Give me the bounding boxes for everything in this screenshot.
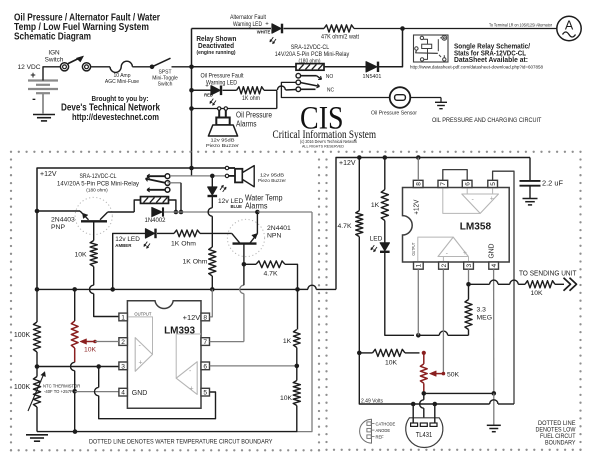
svg-text:OIL PRESSURE AND CHARGING CIRC: OIL PRESSURE AND CHARGING CIRCUIT xyxy=(432,117,542,124)
wire rail to Q1 emitter xyxy=(37,210,80,212)
svg-text:LM358: LM358 xyxy=(460,222,492,233)
Q2 collector down xyxy=(243,244,245,265)
wire pin1 down xyxy=(417,269,419,335)
TL431 pins xyxy=(412,404,414,423)
svg-text:To Terminal 1R on 10Si/12Si Al: To Terminal 1R on 10Si/12Si Alternator xyxy=(489,23,553,28)
wire 2.49V left leg xyxy=(359,353,409,404)
svg-text:14V/20A 5-Pin PCB Mini-Relay: 14V/20A 5-Pin PCB Mini-Relay xyxy=(275,51,350,58)
wire bus to low fuel rail xyxy=(298,288,309,290)
wire bus to white LED xyxy=(192,28,272,30)
wire fuse to toggle switch xyxy=(132,66,151,68)
svg-text:2.2 uF: 2.2 uF xyxy=(542,179,563,188)
potentiometer 50K (red) xyxy=(423,353,425,364)
relay K1 coil xyxy=(296,64,324,71)
svg-text:3: 3 xyxy=(466,263,473,267)
wire coil right to row xyxy=(169,200,176,212)
svg-text:NO: NO xyxy=(326,74,334,80)
wire ground rail xyxy=(37,431,297,433)
svg-text:REF: REF xyxy=(376,434,385,439)
junction TL431 cathode leg xyxy=(411,402,416,407)
junction armature / row xyxy=(179,210,184,215)
svg-text:100K: 100K xyxy=(14,332,31,339)
svg-text:(engine running): (engine running) xyxy=(197,50,236,56)
wire pot to gnd line xyxy=(424,392,494,394)
svg-text:4.7K: 4.7K xyxy=(338,223,352,230)
arrow to sending unit xyxy=(564,278,571,291)
junction rail / NO drop xyxy=(189,166,194,171)
svg-text:A: A xyxy=(565,19,574,33)
svg-text:-: - xyxy=(32,93,36,105)
wire 1K to NC contact xyxy=(264,89,277,91)
wire TL431 middle leg xyxy=(423,393,425,399)
svg-text:OUTPUT: OUTPUT xyxy=(134,311,151,316)
wire 1N5401 to 47K row xyxy=(379,29,403,67)
wire 10K to ground rail xyxy=(296,406,298,432)
svg-text:6: 6 xyxy=(465,182,472,186)
U2 pin 6 xyxy=(462,180,472,187)
svg-text:+: + xyxy=(30,70,35,80)
transistor Q1 2N4403 PNP xyxy=(75,197,112,234)
svg-text:+12V: +12V xyxy=(183,313,201,322)
U2 pin 1 xyxy=(414,262,424,269)
svg-text:+12V: +12V xyxy=(339,158,356,167)
wire armature down to row xyxy=(168,182,182,184)
piezo buzzer 1 (oil pressure) xyxy=(218,110,220,117)
svg-text:Alternator Fault: Alternator Fault xyxy=(230,14,266,21)
U2 op-amp B triangle xyxy=(462,194,499,213)
svg-text:ALL RIGHTS RESERVED: ALL RIGHTS RESERVED xyxy=(302,144,344,148)
wire +12V mid bus xyxy=(37,288,298,290)
junction pin6 / right divider xyxy=(295,364,300,369)
svg-text:7: 7 xyxy=(440,182,447,186)
junction pin1 row xyxy=(416,333,421,338)
svg-text:1K: 1K xyxy=(371,202,380,209)
svg-text:+12V: +12V xyxy=(40,169,57,178)
wire 4.7K down to 10K row xyxy=(358,237,360,353)
wire main +12V vertical bus xyxy=(191,29,193,169)
wire LED to 1K xyxy=(223,89,237,91)
ground oil sensor xyxy=(440,98,442,103)
junction bus left rail xyxy=(35,287,40,292)
ground water temp xyxy=(26,434,48,436)
svg-text:3: 3 xyxy=(121,363,125,370)
svg-text:10K: 10K xyxy=(280,395,293,402)
junction rail / 1K xyxy=(383,155,388,160)
Q1 base resistor wire xyxy=(93,223,95,241)
wire 4.7K to bus xyxy=(285,264,298,289)
wire pin4 down to ground xyxy=(493,269,495,393)
wire LED to 47K xyxy=(284,28,325,30)
svg-text:SRA-12VDC-CL: SRA-12VDC-CL xyxy=(291,44,330,51)
wire ground drop x312 xyxy=(297,212,312,432)
fuse 10A AGC xyxy=(110,61,132,72)
U1 pin 8 xyxy=(201,313,210,321)
svg-text:+: + xyxy=(190,386,194,393)
svg-text:+: + xyxy=(463,250,467,257)
junction ground rail / pot leg xyxy=(73,429,78,434)
wire battery to IGN switch xyxy=(43,67,60,81)
svg-text:Relay Shown: Relay Shown xyxy=(196,36,236,43)
wire rail drop to NO row xyxy=(191,168,193,176)
svg-text:Piezo Buzzer: Piezo Buzzer xyxy=(206,143,240,148)
wire 1K to bus xyxy=(211,276,213,289)
potentiometer 10K (red) xyxy=(74,289,76,321)
junction pot bottom xyxy=(422,391,427,396)
junction bus / buzzer row xyxy=(189,106,194,111)
wire sensor to ground xyxy=(410,97,441,99)
resistor 10K (right divider) xyxy=(296,366,298,381)
svg-text:GND: GND xyxy=(132,388,148,397)
svg-text:ANODE: ANODE xyxy=(376,428,391,433)
wire thermistor to ground rail xyxy=(36,407,38,432)
svg-text:10K: 10K xyxy=(74,252,87,259)
wire coil to 1N5401 xyxy=(324,66,366,68)
svg-text:10K: 10K xyxy=(530,290,543,297)
svg-text:1N5401: 1N5401 xyxy=(363,74,382,80)
svg-text:4: 4 xyxy=(121,390,125,397)
capacitor 2.2uF xyxy=(529,158,531,181)
relay K2 contact NO xyxy=(165,174,170,179)
TL431 body xyxy=(406,418,443,448)
svg-text:TL431: TL431 xyxy=(416,432,433,439)
junction bus / 1K vertical pin8 xyxy=(210,287,215,292)
wire coil left to row xyxy=(134,200,140,212)
junction divider / pin3 row xyxy=(35,364,40,369)
relay K1 contact NC xyxy=(296,87,301,92)
svg-text:Alarms: Alarms xyxy=(236,119,257,128)
wire pin1 row to 3.3MEG xyxy=(418,334,439,336)
svg-text:Alarms: Alarms xyxy=(245,202,268,211)
svg-text:1N4002: 1N4002 xyxy=(144,218,166,224)
U2 pin 2 xyxy=(439,262,449,269)
resistor 4.7K (low fuel) xyxy=(358,158,360,211)
TO-92 package legend xyxy=(360,419,372,443)
svg-text:12 VDC: 12 VDC xyxy=(17,64,40,71)
svg-text:OUTPUT: OUTPUT xyxy=(411,242,416,255)
junction bus / 4.7K branch xyxy=(295,287,300,292)
svg-text:(c) 2016 Deve's Technical Netw: (c) 2016 Deve's Technical Network xyxy=(300,139,358,144)
junction rail / 4.7K xyxy=(357,155,362,160)
wire +12V rail low fuel xyxy=(336,158,530,290)
ground battery xyxy=(33,114,55,116)
wire pot to ground rail xyxy=(74,391,76,431)
resistor 100K (upper divider) xyxy=(36,289,38,322)
svg-text:+12V: +12V xyxy=(412,199,421,214)
wire IGN to fuse xyxy=(91,66,110,68)
speaker water temp terminals xyxy=(225,166,228,169)
U2 pin 4 xyxy=(489,262,499,269)
wire pin7 pin6 loop xyxy=(443,170,467,181)
Q2 emitter arrow xyxy=(250,234,257,243)
svg-text:12v 95dB: 12v 95dB xyxy=(260,173,284,178)
alternator symbol A xyxy=(557,16,581,40)
op-amp U2 LM358 xyxy=(403,188,510,263)
pot 10K wiper xyxy=(86,341,95,343)
svg-text:8: 8 xyxy=(416,182,423,186)
junction pin3 row / x98.7 xyxy=(96,364,101,369)
LED amber xyxy=(146,229,155,238)
U1 comparator B triangle xyxy=(176,362,197,395)
svg-text:5: 5 xyxy=(203,390,207,397)
wire pin7 to riser xyxy=(210,341,244,343)
wire toggle to bus node xyxy=(172,66,192,68)
wire +12V rail water temp xyxy=(37,168,225,289)
resistor 3.3 MEG xyxy=(468,284,470,299)
wire pin7 riser xyxy=(243,294,245,342)
svg-text:1: 1 xyxy=(121,315,125,322)
wire pin3 down xyxy=(468,269,470,284)
wire Q2 to diode row xyxy=(256,212,258,234)
U1 pin 7 xyxy=(201,338,210,346)
svg-text:http://www.datasheet-pdf.com/d: http://www.datasheet-pdf.com/datasheet-d… xyxy=(410,64,544,69)
junction 4.7K / 10K row xyxy=(357,351,362,356)
svg-text:50K: 50K xyxy=(447,371,460,378)
U1 comparator A triangle xyxy=(135,338,152,372)
wire buzzer row xyxy=(192,108,277,110)
svg-text:PNP: PNP xyxy=(51,224,65,231)
wire pin5 feedback loop xyxy=(493,171,514,404)
piezo buzzer 2 (water temp) xyxy=(229,167,235,169)
junction 47K row / relay diode branch xyxy=(400,26,405,31)
wire 1K to Q2 base xyxy=(200,232,232,234)
wire 10K to LM393 pin1 xyxy=(93,267,95,286)
U1 pin 6 xyxy=(201,362,210,370)
wire bus to red LED xyxy=(192,89,212,91)
junction main bus / toggle xyxy=(189,65,194,70)
wire x98.7 riser to pin5 row xyxy=(98,367,100,388)
svg-text:(180 ohm): (180 ohm) xyxy=(86,187,108,193)
svg-text:Schematic Diagram: Schematic Diagram xyxy=(14,32,91,43)
svg-text:BLUE: BLUE xyxy=(231,204,243,209)
svg-text:IGN: IGN xyxy=(48,50,60,57)
svg-text:WHITE: WHITE xyxy=(257,30,271,35)
diode 1N5401 xyxy=(366,62,377,72)
svg-text:+: + xyxy=(139,359,143,366)
svg-text:14V/20A 5-Pin PCB Mini-Relay: 14V/20A 5-Pin PCB Mini-Relay xyxy=(57,180,140,187)
U1 pin 3 xyxy=(119,362,128,370)
svg-text:6: 6 xyxy=(203,363,207,370)
relay K1 armature xyxy=(296,80,301,85)
svg-text:BOUNDARY: BOUNDARY xyxy=(545,439,576,446)
svg-text:10K: 10K xyxy=(385,360,398,367)
wire row to ground drop x312 xyxy=(257,211,312,213)
junction bus / oil LED row xyxy=(189,88,194,93)
resistor 4.7K (water temp) xyxy=(244,263,256,265)
U1 pin 1 xyxy=(119,313,128,321)
svg-text:LM393: LM393 xyxy=(164,326,195,337)
resistor 1K Ohm (vertical) xyxy=(209,247,216,276)
svg-text:8: 8 xyxy=(203,315,207,322)
svg-text:47K ohm/2 watt: 47K ohm/2 watt xyxy=(321,35,359,41)
svg-text:1: 1 xyxy=(416,263,423,267)
op-amp U1 LM393 xyxy=(127,301,201,409)
resistor 47K ohm/2 watt xyxy=(324,25,354,32)
junction 10K / 50K pot xyxy=(422,351,426,355)
thermistor 100K NTC xyxy=(36,367,38,377)
svg-text:TO SENDING UNIT: TO SENDING UNIT xyxy=(519,270,577,277)
svg-text:2N4403: 2N4403 xyxy=(51,217,75,224)
svg-text:+: + xyxy=(265,22,269,28)
svg-text:DataSheet Available at:: DataSheet Available at: xyxy=(454,55,528,64)
svg-text:1K Ohm: 1K Ohm xyxy=(171,241,196,248)
junction rail / Q1 emitter xyxy=(35,209,40,214)
svg-text:Switch: Switch xyxy=(45,57,64,64)
dotted boundary water temperature circuit xyxy=(10,151,12,153)
svg-text:NPN: NPN xyxy=(267,232,281,239)
U2 pin 3 xyxy=(464,262,474,269)
wire LED to pin1 row xyxy=(385,252,414,335)
wire battery to ground xyxy=(42,93,44,113)
songle relay schematic box xyxy=(414,35,449,62)
resistor 10K (sending) xyxy=(525,281,555,288)
svg-text:http://devestechnet.com: http://devestechnet.com xyxy=(72,112,159,122)
U2 pin 8 xyxy=(413,180,423,187)
LED red (oil pressure fault) xyxy=(211,86,220,95)
wire diode row right xyxy=(164,211,258,213)
svg-text:LED: LED xyxy=(370,235,383,242)
junction NO row / blue LED xyxy=(210,174,215,179)
svg-text:+: + xyxy=(490,196,494,203)
dotted boundary low fuel circuit xyxy=(325,158,327,160)
svg-text:3.3: 3.3 xyxy=(477,307,487,314)
U2 op-amp A triangle xyxy=(438,237,468,256)
piezo buzzer 1 terminals xyxy=(218,107,221,110)
svg-text:DOTTED LINE DENOTES WATER TEMP: DOTTED LINE DENOTES WATER TEMPERATURE CI… xyxy=(89,439,273,446)
resistor 10K (Q1 base) xyxy=(90,241,97,267)
junction Q2 / 4.7K xyxy=(242,262,247,267)
SPST mini-toggle switch xyxy=(150,65,155,70)
junction gnd line xyxy=(492,391,497,396)
wire armature to oil pressure sensor xyxy=(281,82,389,97)
U1 pin 2 xyxy=(119,338,128,346)
svg-text:7: 7 xyxy=(203,339,207,346)
LED blue (water temp) xyxy=(211,176,213,187)
wire 2.49V rail xyxy=(409,403,490,405)
junction coil right / row xyxy=(174,210,179,215)
wire NO row to speaker xyxy=(170,175,225,177)
diode 1N4002 xyxy=(152,207,162,216)
svg-text:Deactivated: Deactivated xyxy=(198,43,234,50)
svg-text:Warning LED: Warning LED xyxy=(233,21,262,28)
svg-text:10K: 10K xyxy=(84,347,97,354)
U2 pin 5 xyxy=(488,180,498,187)
svg-text:+: + xyxy=(205,83,209,89)
wire pin8 to rail xyxy=(417,158,419,181)
svg-text:AGC Mini-Fuse: AGC Mini-Fuse xyxy=(105,79,139,85)
pot 50K wiper xyxy=(436,373,443,375)
relay K2 armature xyxy=(165,181,170,186)
svg-text:SRA-12VDC-CL: SRA-12VDC-CL xyxy=(80,173,117,180)
svg-text:Piezo Buzzer: Piezo Buzzer xyxy=(258,178,287,183)
U2 pin 7 xyxy=(438,180,448,187)
wire pin4 row xyxy=(75,391,119,393)
svg-text:100K: 100K xyxy=(14,384,31,391)
svg-text:Oil Pressure Sensor: Oil Pressure Sensor xyxy=(371,111,417,117)
junction pot / pin4 row xyxy=(72,389,77,394)
svg-text:5: 5 xyxy=(490,182,497,186)
svg-text:Switch: Switch xyxy=(158,82,173,88)
wire pin2 to pot wiper xyxy=(95,341,119,343)
svg-text:1K: 1K xyxy=(283,338,292,345)
relay K2 coil xyxy=(141,197,169,204)
relay K1 contact NO xyxy=(296,73,301,78)
junction bus / amber LED branch xyxy=(110,287,115,292)
svg-text:GND: GND xyxy=(486,244,495,259)
svg-text:AMBER: AMBER xyxy=(115,243,132,248)
svg-text:4: 4 xyxy=(491,263,498,267)
wire bus to relay coil xyxy=(192,66,297,68)
resistor 1K Ohm (amber row) xyxy=(157,232,174,234)
svg-text:NC: NC xyxy=(327,88,335,94)
wire blue LED down / 1K vertical xyxy=(211,196,213,208)
svg-text:1K ohm: 1K ohm xyxy=(242,96,260,102)
junction TL431 ref leg xyxy=(433,402,438,407)
resistor 1K (low fuel) xyxy=(384,158,386,190)
wire pin8 to bus xyxy=(210,289,213,317)
wire to sending unit xyxy=(469,283,490,285)
ground low fuel xyxy=(493,393,495,425)
svg-text:2: 2 xyxy=(441,263,448,267)
relay K2 contact NC xyxy=(165,187,170,192)
Q2 base bar xyxy=(233,242,257,244)
wire pin2 down to 50K wiper xyxy=(442,269,444,373)
svg-text:RED: RED xyxy=(204,92,213,97)
svg-text:12v 95dB: 12v 95dB xyxy=(211,138,235,143)
Q1 base bar xyxy=(81,220,107,222)
Q1 collector xyxy=(100,212,108,220)
transistor Q2 2N4401 NPN xyxy=(227,219,264,256)
oil pressure sensor xyxy=(390,87,411,108)
svg-text:4.7K: 4.7K xyxy=(264,271,278,278)
svg-text:CATHODE: CATHODE xyxy=(376,421,396,426)
LED white (alternator fault) xyxy=(272,24,281,33)
resistor 1K ohm (oil LED) xyxy=(237,87,264,94)
junction pin3 / sending row xyxy=(466,282,471,287)
wire pin3 row xyxy=(37,366,119,368)
U1 pin 4 xyxy=(119,388,128,396)
LED amber row wire xyxy=(113,233,146,289)
svg-text:2: 2 xyxy=(121,339,125,346)
resistor 1K (right divider) xyxy=(297,289,299,329)
U1 pin 5 xyxy=(201,388,210,396)
svg-text:2N4401: 2N4401 xyxy=(267,225,291,232)
svg-text:-40F TO +257F: -40F TO +257F xyxy=(44,389,73,394)
junction row / NPN collector xyxy=(255,210,260,215)
wire Q1 collector to diode row xyxy=(108,211,135,213)
svg-text:MEG: MEG xyxy=(477,314,492,321)
wire 1K node down to buzzer row xyxy=(276,90,278,108)
junction bus / pot xyxy=(72,287,77,292)
svg-text:2.49 Volts: 2.49 Volts xyxy=(361,398,383,404)
svg-text:1K Ohm: 1K Ohm xyxy=(183,259,208,266)
resistor 10K (horizontal) xyxy=(359,352,372,354)
wire 47K to alternator xyxy=(354,28,557,30)
svg-text:12v LED: 12v LED xyxy=(115,236,140,243)
junction rail / pin8 xyxy=(416,155,421,160)
wire pin6 row xyxy=(210,365,297,367)
